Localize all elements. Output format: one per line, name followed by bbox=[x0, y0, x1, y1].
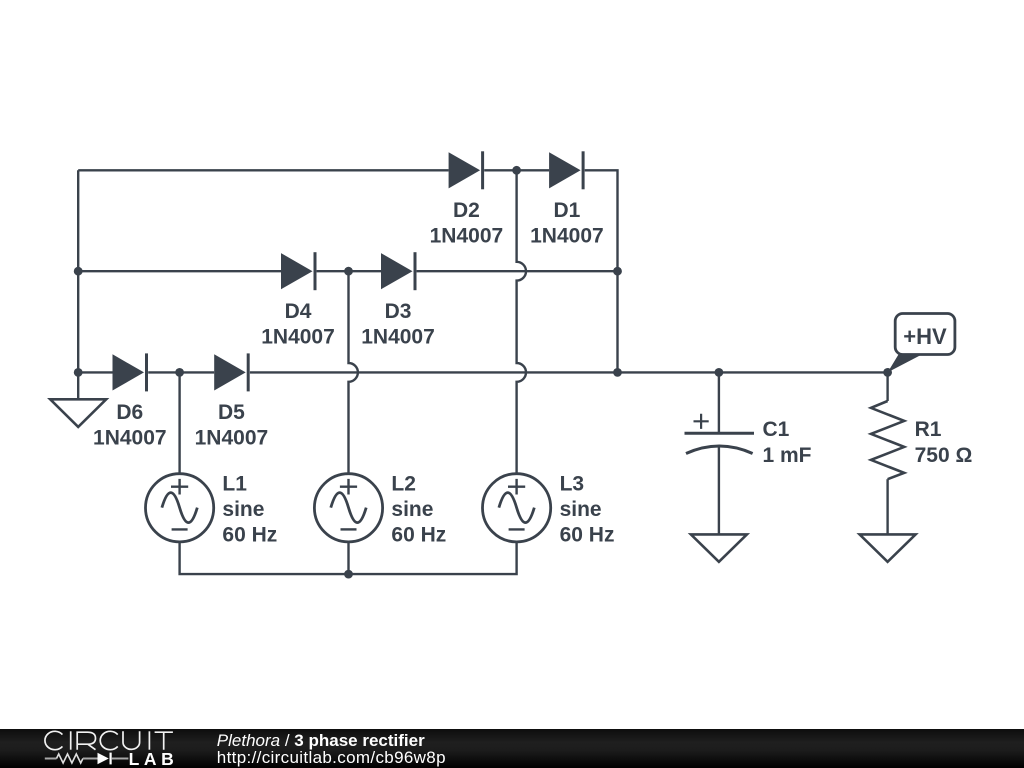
svg-text:D2: D2 bbox=[453, 199, 480, 222]
svg-text:1N4007: 1N4007 bbox=[261, 326, 335, 349]
svg-text:L3: L3 bbox=[560, 472, 585, 495]
wire: node L3 column with hops over row2 and row3 bbox=[517, 170, 526, 473]
wire: C1 lower stub to ground bbox=[718, 447, 720, 535]
net flag +HV bbox=[888, 314, 955, 373]
logo resistor zigzag bbox=[57, 754, 83, 763]
wire: bottom bus linking source bottoms bbox=[180, 542, 517, 574]
wire: row 3 from D5 cathode to R1 node bbox=[250, 371, 888, 373]
logo diode bbox=[98, 753, 109, 764]
svg-text:1N4007: 1N4007 bbox=[93, 427, 167, 450]
wire: node L2 column with hop over row3 bbox=[349, 271, 358, 474]
logo wire left bbox=[45, 758, 57, 760]
diode D3 bbox=[381, 252, 415, 290]
wire: row 1 from D1 cathode to right corner, down to row 2 bbox=[585, 170, 618, 271]
wire: R1 bottom stub to ground bbox=[886, 479, 888, 534]
logo letter I bbox=[70, 731, 72, 749]
ground (below C1) bbox=[691, 534, 747, 561]
svg-text:750 Ω: 750 Ω bbox=[915, 444, 973, 467]
wire: R1 top stub bbox=[886, 372, 888, 401]
svg-text:60 Hz: 60 Hz bbox=[391, 524, 446, 547]
wire: row 3 between D6 cathode and D5 anode bbox=[148, 371, 214, 373]
junction: row 2 / right vertical bbox=[613, 267, 622, 276]
wire: C1 branch from output bus to top plate bbox=[718, 372, 720, 433]
voltage source L1 bbox=[146, 474, 214, 542]
wire: left rail stub to ground bbox=[77, 372, 79, 399]
diode D6 bbox=[113, 353, 147, 391]
junction: left rail / row 2 bbox=[74, 267, 83, 276]
junction: row 3 / C1 branch bbox=[715, 368, 724, 377]
voltage source L2 bbox=[314, 474, 382, 542]
wire: row 2 horizontal from left rail to D4 anode bbox=[78, 270, 281, 272]
svg-text:sine: sine bbox=[391, 498, 433, 521]
junction: row 2 / L2 column bbox=[344, 267, 353, 276]
wire: row 1 horizontal from left rail to D2 anode bbox=[78, 169, 448, 171]
svg-text:1N4007: 1N4007 bbox=[430, 225, 504, 248]
wire: left rail vertical (rows 1-3) bbox=[77, 170, 79, 372]
svg-text:1N4007: 1N4007 bbox=[195, 427, 269, 450]
wire: row 2 between D4 cathode and D3 anode bbox=[317, 270, 381, 272]
wire: row 3 horizontal from left rail to D6 anode bbox=[78, 371, 112, 373]
ground (below R1) bbox=[860, 534, 916, 561]
svg-text:D4: D4 bbox=[285, 300, 312, 323]
svg-text:L2: L2 bbox=[391, 472, 416, 495]
wire: row 2 from D3 cathode to right vertical bbox=[417, 270, 618, 272]
svg-text:60 Hz: 60 Hz bbox=[222, 524, 277, 547]
junction: row 3 / R1 branch (+HV node) bbox=[883, 368, 892, 377]
logo letter U bbox=[123, 731, 140, 749]
junction: left rail / row 3 bbox=[74, 368, 83, 377]
CircuitLab logo bbox=[0, 728, 200, 767]
voltage source L3 bbox=[482, 474, 550, 542]
logo letter R bbox=[77, 732, 95, 750]
svg-text:sine: sine bbox=[222, 498, 264, 521]
svg-text:D1: D1 bbox=[553, 199, 580, 222]
logo wire right bbox=[112, 758, 129, 760]
wire: right vertical from row 2 to row 3 bbox=[616, 271, 618, 372]
svg-text:+HV: +HV bbox=[903, 324, 947, 349]
diode D1 bbox=[549, 151, 583, 189]
svg-text:1N4007: 1N4007 bbox=[361, 326, 435, 349]
logo letter C bbox=[45, 731, 62, 749]
resistor R1 bbox=[871, 401, 904, 479]
svg-text:D6: D6 bbox=[116, 401, 143, 424]
svg-text:D5: D5 bbox=[218, 401, 245, 424]
capacitor C1 (polarized) bbox=[685, 414, 755, 454]
logo letter C bbox=[100, 731, 117, 749]
logo letter T bbox=[155, 732, 173, 750]
svg-text:1 mF: 1 mF bbox=[763, 444, 812, 467]
svg-text:D3: D3 bbox=[385, 300, 412, 323]
footer bar bbox=[0, 729, 1024, 768]
wire: L1 column from row 3 to L1 top bbox=[178, 372, 180, 473]
svg-text:sine: sine bbox=[560, 498, 602, 521]
diode D4 bbox=[281, 252, 315, 290]
junction: bottom bus / L2 bbox=[344, 570, 353, 579]
wire: L2 bottom stub to bus bbox=[347, 542, 349, 574]
junction: row 3 / right vertical bbox=[613, 368, 622, 377]
svg-text:60 Hz: 60 Hz bbox=[560, 524, 615, 547]
junction: row 1 / L3 column bbox=[512, 166, 521, 175]
wire: row 1 between D2 cathode and D1 anode bbox=[484, 169, 549, 171]
footer url bbox=[217, 749, 446, 767]
svg-text:C1: C1 bbox=[763, 418, 790, 441]
logo letter I bbox=[148, 731, 150, 749]
logo wire middle bbox=[83, 758, 98, 760]
ground (left rail) bbox=[50, 399, 106, 427]
svg-text:R1: R1 bbox=[915, 418, 942, 441]
svg-text:LAB: LAB bbox=[129, 749, 179, 767]
diode D5 bbox=[214, 353, 248, 391]
footer title bbox=[217, 732, 425, 750]
junction: row 3 / L1 column bbox=[175, 368, 184, 377]
diode D2 bbox=[449, 151, 483, 189]
svg-text:1N4007: 1N4007 bbox=[530, 225, 604, 248]
svg-text:L1: L1 bbox=[222, 472, 247, 495]
